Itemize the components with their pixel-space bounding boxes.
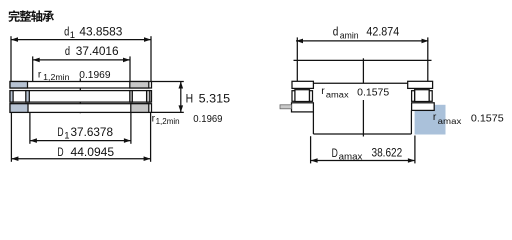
svg-text:38.622: 38.622 bbox=[372, 146, 403, 160]
dimension line H bbox=[179, 82, 184, 113]
shaft washer section right bbox=[130, 82, 149, 89]
svg-text:r: r bbox=[38, 69, 42, 80]
svg-text:0.1969: 0.1969 bbox=[193, 114, 222, 125]
dimension line D bbox=[11, 156, 150, 161]
dimension line Damax bbox=[311, 158, 415, 163]
extension line d right bbox=[129, 56, 131, 81]
svg-text:D: D bbox=[57, 125, 63, 139]
svg-text:5.315: 5.315 bbox=[199, 92, 231, 106]
bearing section left: outer strip bbox=[292, 91, 295, 102]
bearing section left: inner strip bbox=[310, 91, 313, 102]
svg-text:D: D bbox=[332, 146, 338, 160]
svg-text:1,2min: 1,2min bbox=[43, 73, 69, 82]
dimension text d 37.4016 bbox=[65, 44, 119, 58]
svg-text:amax: amax bbox=[438, 117, 462, 126]
fillet highlight ra bbox=[415, 105, 446, 135]
dimension line damin bbox=[296, 39, 429, 44]
svg-text:43.8583: 43.8583 bbox=[79, 24, 122, 38]
extension line damin right bbox=[427, 37, 429, 81]
dimension text r1,2min 0.1969 lower bbox=[152, 113, 223, 126]
extension line Damax left bbox=[310, 136, 312, 163]
dimension line d1 bbox=[11, 37, 151, 42]
dimension line D1 bbox=[30, 138, 131, 143]
bearing section right: shaft washer bbox=[408, 81, 433, 88]
roller left outer strip bbox=[10, 91, 13, 103]
svg-text:amin: amin bbox=[340, 30, 359, 41]
title 完整轴承 bbox=[8, 10, 54, 22]
dimension line d bbox=[33, 58, 130, 63]
svg-text:d: d bbox=[65, 44, 70, 58]
svg-text:r: r bbox=[321, 86, 325, 97]
extension line D right bbox=[150, 112, 152, 161]
shaft washer protrusion bbox=[280, 105, 292, 109]
bearing section left: roller bbox=[295, 90, 310, 102]
svg-text:1,2min: 1,2min bbox=[156, 117, 180, 126]
dimension text D1 37.6378 bbox=[57, 125, 113, 142]
svg-text:37.6378: 37.6378 bbox=[71, 125, 114, 139]
center line lower bbox=[362, 100, 364, 137]
svg-text:d: d bbox=[333, 24, 339, 38]
shaft abutment line bbox=[294, 59, 432, 61]
svg-text:0.1969: 0.1969 bbox=[79, 70, 110, 81]
bearing section left: shaft washer bbox=[292, 81, 313, 88]
roller right outer strip bbox=[147, 91, 150, 103]
bearing section right: outer strip bbox=[429, 91, 432, 102]
svg-text:44.0945: 44.0945 bbox=[71, 145, 115, 159]
dimension text r1,2min 0.1969 upper bbox=[38, 69, 111, 82]
extension line D left bbox=[10, 112, 12, 161]
housing top surface bbox=[313, 82, 410, 84]
dimension text d1 43.8583 bbox=[64, 24, 122, 41]
leader line r1,2min bbox=[79, 78, 81, 113]
svg-text:1: 1 bbox=[64, 131, 69, 142]
roller right inner strip bbox=[130, 91, 133, 103]
housing bore bottom bbox=[313, 133, 411, 135]
shaft washer section left bbox=[10, 82, 28, 89]
bearing section right: inner strip bbox=[412, 91, 415, 102]
svg-text:d: d bbox=[64, 24, 69, 38]
dimension text D 44.0945 bbox=[57, 145, 114, 159]
bearing section right: roller bbox=[415, 90, 430, 102]
housing washer section left bbox=[10, 104, 28, 113]
dimension text ramax 0.1575 outer bbox=[433, 112, 504, 126]
svg-text:D: D bbox=[57, 145, 63, 159]
svg-text:H: H bbox=[186, 92, 194, 106]
svg-text:42.874: 42.874 bbox=[366, 24, 399, 38]
dimension text Damax 38.622 bbox=[332, 146, 403, 163]
extension line d1 right bbox=[150, 36, 152, 81]
bearing section right: housing washer bbox=[412, 103, 435, 111]
center line upper bbox=[362, 58, 364, 83]
bearing top washer band bbox=[10, 82, 152, 89]
extension line D1 right bbox=[130, 112, 132, 143]
svg-text:amax: amax bbox=[326, 90, 349, 99]
dimension text damin 42.874 bbox=[333, 24, 399, 41]
svg-text:0.1575: 0.1575 bbox=[357, 87, 389, 98]
roller left inner strip bbox=[26, 91, 30, 103]
dimension text ramax 0.1575 inner bbox=[321, 86, 389, 100]
extension line Damax right bbox=[414, 136, 416, 164]
extension line d left bbox=[32, 56, 34, 81]
dimension text H 5.315 bbox=[186, 92, 231, 106]
extension line H top bbox=[152, 81, 184, 83]
bearing section left: housing washer bbox=[292, 103, 314, 112]
extension line H bottom bbox=[152, 111, 184, 113]
housing bore left wall bbox=[312, 112, 314, 134]
extension line d1 left bbox=[10, 36, 12, 81]
extension line damin left bbox=[296, 37, 298, 81]
housing washer section right bbox=[131, 104, 149, 113]
bearing bottom washer band bbox=[10, 104, 152, 113]
extension line D1 left bbox=[29, 112, 31, 143]
svg-text:0.1575: 0.1575 bbox=[471, 113, 504, 124]
housing bore right wall bbox=[410, 110, 412, 134]
bearing roller band bbox=[10, 91, 152, 103]
svg-text:37.4016: 37.4016 bbox=[76, 44, 119, 58]
svg-text:r: r bbox=[433, 112, 437, 123]
